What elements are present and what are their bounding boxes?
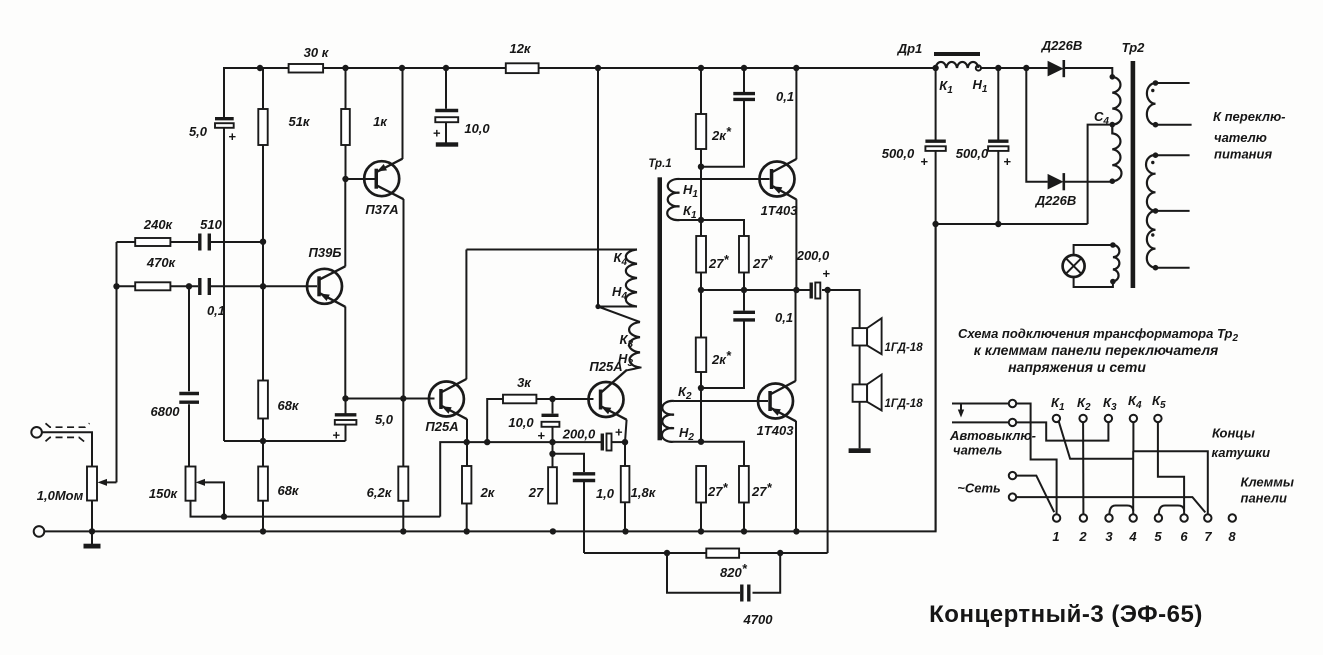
svg-text:12к: 12к [509,41,531,56]
svg-text:0,1: 0,1 [207,303,225,318]
winding К2-Н2 Тр1 [662,401,674,442]
svg-text:51к: 51к [288,114,310,129]
capacitor 500,0 no.2 [988,68,1008,224]
winding Тр2 primary lower [1110,125,1122,184]
switch Сеть contact upper [1009,472,1016,479]
winding Н1-К1 Тр1 [667,179,679,220]
svg-text:150к: 150к [149,486,179,501]
svg-text:Клеммы: Клеммы [1241,475,1294,490]
resistor 820* [706,549,739,558]
loudspeaker 1ГД-18 lower [853,346,882,411]
wire К5 to terminal 6 [1158,422,1184,514]
node 2к*/0,1 upper [698,164,704,170]
svg-text:1к: 1к [373,114,388,129]
wire tap to К3 [598,307,640,323]
wire bottom ground rail [44,224,935,531]
wire lower diode branch [1026,68,1112,182]
wire switch lower to К3 [952,422,1108,440]
svg-text:+: + [433,126,441,141]
wire К1 to terminal 4 [1059,421,1134,514]
svg-text:0,1: 0,1 [775,310,793,325]
terminal К5 [1154,415,1161,422]
input jack bottom contact [34,526,45,537]
node П37А base [342,176,348,182]
wire Сеть lower to terminal 7 [1016,497,1205,512]
winding Тр2 primary upper [1110,74,1122,127]
resistor 68к upper [258,380,268,467]
svg-text:катушки: катушки [1212,445,1271,460]
node 10,0 top [549,396,555,402]
svg-text:П25А: П25А [425,419,458,434]
terminal 3 [1105,514,1112,521]
terminal К2 [1079,415,1086,422]
svg-text:+: + [1003,154,1011,169]
svg-text:1ГД-18: 1ГД-18 [885,398,924,410]
svg-text:Тр.1: Тр.1 [648,158,671,170]
transistor П25А driver [429,250,467,467]
node Н4 tap [595,304,600,309]
node 10,0 bottom [549,439,555,457]
potentiometer 1,0Мом [87,467,97,532]
resistor 470к [117,282,199,290]
wire top supply rail [224,68,936,117]
wire feedback bottom line [584,552,828,554]
node П39Б emitter [342,395,348,401]
wire Н2 to bias [674,442,744,466]
label Автовыключатель [949,428,1036,458]
node П25А emitter/1,8к [622,439,628,445]
node 470к/6800 [186,283,192,289]
svg-text:1,8к: 1,8к [631,485,657,500]
svg-text:Др1: Др1 [897,41,923,56]
choke Др1 [934,52,980,68]
diode Д226В upper [1048,60,1064,77]
svg-text:Концы: Концы [1212,426,1255,441]
transistor П37А [346,68,404,399]
wire mid output rail [701,290,860,328]
node 6,2к top [400,395,406,401]
winding Тр2 secondary 2 [1146,152,1158,270]
svg-text:500,0: 500,0 [882,146,915,161]
svg-text:68к: 68к [277,398,299,413]
capacitor 200,0 interstage [602,434,625,451]
terminal 5 [1155,514,1162,521]
resistor 2к [462,466,471,531]
node mid rail junctions [698,287,831,293]
terminal 8 [1229,514,1236,521]
capacitor 10,0 emitter bypass [542,399,560,467]
resistor 30к [289,64,324,73]
svg-text:4: 4 [1128,529,1137,544]
svg-text:5,0: 5,0 [189,124,208,139]
capacitor 5,0 electrolytic П39Б emitter [335,399,357,442]
wire secondary 2 leads [1156,155,1190,268]
terminal 6 [1180,514,1187,521]
transistor 1Т403 lower [758,290,796,531]
capacitor 0,1 input [200,278,317,295]
svg-text:питания: питания [1214,147,1272,162]
svg-text:240к: 240к [143,217,174,232]
capacitor 0,1 upper [701,68,755,167]
svg-text:510: 510 [200,217,222,232]
diode Д226В lower [1048,173,1064,190]
svg-text:Д226В: Д226В [1035,193,1076,208]
input jack top contact [31,427,42,438]
winding Тр2 secondary 1 [1147,80,1158,127]
wire К1 to bias [680,220,745,236]
terminal К3 [1105,415,1112,422]
transistor П25А output driver [589,367,642,442]
svg-text:напряжения и сети: напряжения и сети [1008,359,1146,375]
label panel heading [958,326,1239,375]
svg-text:500,0: 500,0 [956,146,989,161]
wire input to volume pot [42,432,92,466]
wire pot wiper with arrow [98,242,117,486]
terminal 7 [1204,514,1211,521]
node К1 bias [698,217,704,223]
svg-text:0,1: 0,1 [776,89,794,104]
wire bracket terminals 3-4 [1109,506,1133,515]
svg-text:П37А: П37А [365,202,398,217]
svg-text:+: + [537,428,545,443]
svg-text:~Сеть: ~Сеть [957,481,1001,496]
transistor П39Б [307,179,345,399]
resistor 6,2к [398,399,408,532]
node Н1 end [976,65,981,70]
resistor 3к [487,395,593,442]
capacitor 510 [200,234,263,251]
node 68к divider [260,438,266,444]
resistor 2к* lower [696,338,706,373]
svg-text:+: + [228,129,236,144]
transformer Тр1 core [658,177,663,440]
node 150к wiper [221,513,227,519]
wire lamp loop [1074,245,1113,287]
capacitor 4700 [667,553,780,602]
svg-text:чатель: чатель [953,443,1002,458]
terminal 4 [1130,514,1137,521]
wire К2 to terminal 2 [1082,422,1084,514]
svg-text:6,2к: 6,2к [367,485,393,500]
capacitor 1,0 [553,454,596,553]
wire bracket terminals 5-6 [1159,506,1184,515]
node 3к bottom [484,439,490,445]
ground input [84,531,101,548]
svg-text:6: 6 [1180,529,1188,544]
terminal 1 [1053,514,1060,521]
svg-text:4700: 4700 [743,612,774,627]
node 2к*/0,1 lower [698,385,704,391]
svg-text:К переклю-: К переклю- [1213,109,1286,124]
svg-text:к клеммам панели переключателя: к клеммам панели переключателя [974,342,1219,358]
resistor 27* no.1 [696,236,706,273]
capacitor 500,0 no.1 [925,68,945,531]
svg-text:панели: панели [1241,491,1287,506]
wire Н1 to base 1Т403 upper [680,178,770,180]
resistor 12к [506,63,539,73]
label К переключателю питания [1213,109,1286,162]
shield dashed screen of input lead [46,423,90,442]
svg-text:+: + [822,266,830,281]
svg-text:3к: 3к [517,375,532,390]
resistor 68к lower [258,467,268,532]
node pot/rail [113,283,119,289]
ground loudspeakers [849,402,871,453]
wire secondary 1 leads [1156,83,1192,125]
resistor 51к [258,68,267,380]
resistor 27* no.2 [739,236,749,273]
svg-text:П39Б: П39Б [308,245,341,260]
node zero/500,0 junctions [932,221,1001,227]
svg-text:1Т403: 1Т403 [757,423,795,438]
loudspeaker 1ГД-18 upper [853,318,882,354]
wire mains entry arrow [958,404,964,418]
wire rectifier top line [981,68,1112,77]
svg-text:1Т403: 1Т403 [761,203,799,218]
node feedback left [664,550,670,556]
capacitor 5,0 electrolytic top-left [215,119,234,441]
terminal 2 [1080,514,1087,521]
svg-text:Автовыклю-: Автовыклю- [949,428,1036,443]
winding К3-Н3 Тр1 [629,322,640,368]
capacitor 10,0 electrolytic [435,68,458,147]
resistor 27* no.3 [696,466,706,531]
svg-text:200,0: 200,0 [796,248,830,263]
wire 27* to mid rail [701,273,744,338]
capacitor 0,1 lower [701,290,755,388]
svg-text:10,0: 10,0 [464,121,490,136]
node bottom rail junctions [89,528,800,534]
resistor 27 [548,467,557,503]
capacitor 6800 [179,286,199,466]
node base line 51k-line [260,239,266,290]
svg-text:Концертный-3 (ЭФ-65): Концертный-3 (ЭФ-65) [929,601,1203,628]
svg-text:Д226В: Д226В [1041,38,1082,53]
svg-text:+: + [332,428,340,443]
svg-text:10,0: 10,0 [508,415,534,430]
capacitor 200,0 output [811,283,820,299]
wire collector П25А to Тр1 [466,249,637,251]
label terminal numbers [1052,529,1236,544]
svg-text:8: 8 [1228,529,1236,544]
transformer Тр2 core [1131,61,1136,288]
node diode branch [1023,65,1029,71]
node top rail junctions [257,65,939,71]
wire emitter feedback line [224,440,346,442]
svg-text:27: 27 [528,485,544,500]
svg-text:3: 3 [1105,529,1113,544]
wire supply to Тр1 primary tap [598,68,637,307]
svg-text:1,0Мом: 1,0Мом [37,488,84,503]
svg-text:68к: 68к [277,483,299,498]
transistor 1Т403 upper [760,68,797,290]
wire К2 to base 1Т403 lower [674,400,768,402]
resistor 1к [341,68,350,179]
switch Сеть contact lower [1009,493,1016,500]
svg-text:чателю: чателю [1214,130,1267,145]
wire С4 centre tap [1088,125,1113,224]
svg-text:470к: 470к [146,255,177,270]
pilot lamp [1063,255,1085,277]
winding lamp Тр2 [1110,242,1119,284]
wire emitter node line [440,442,602,516]
resistor 1,8к [621,442,630,531]
switch Автовыключатель contact upper [1009,400,1016,407]
switch Автовыключатель contact lower [1009,419,1016,426]
node feedback right [777,550,783,556]
svg-text:1,0: 1,0 [596,486,615,501]
wire Сеть upper to terminal 1 [1016,476,1054,513]
svg-text:1ГД-18: 1ГД-18 [885,342,924,354]
svg-text:+: + [920,154,928,169]
wire base line П25А driver [346,398,435,400]
wire 2к* lower to Н2 [700,372,702,442]
node Н2 bias [698,439,704,445]
svg-text:5,0: 5,0 [375,412,394,427]
label Клеммы панели [1241,475,1294,506]
svg-text:Тр2: Тр2 [1122,40,1146,55]
svg-text:7: 7 [1204,529,1212,544]
resistor 27* no.4 [739,466,749,531]
resistor 240к [117,238,199,246]
label Концы катушки [1212,426,1271,461]
terminal К4 [1130,415,1137,422]
resistor 2к* upper [696,68,706,236]
svg-text:200,0: 200,0 [562,427,596,442]
winding К4-Н4 Тр1 [626,250,637,307]
svg-text:6800: 6800 [151,404,181,419]
svg-text:+: + [615,425,623,440]
svg-text:5: 5 [1154,529,1162,544]
wire 150к wiper arrow [196,479,225,517]
svg-text:30 к: 30 к [304,45,330,60]
wire feedback takeoff [827,290,829,553]
wire switch upper to terminal 1 [952,404,1057,515]
wire zero volt line [936,223,1088,225]
potentiometer 150к [186,467,441,517]
node П25А emitter [464,439,470,445]
wire К4 to terminal 7 [1133,422,1207,514]
svg-text:1: 1 [1052,529,1059,544]
node 500,0 no.2 top [995,65,1001,71]
svg-text:2к: 2к [480,485,496,500]
svg-text:2: 2 [1078,529,1087,544]
terminal К1 [1053,415,1060,422]
